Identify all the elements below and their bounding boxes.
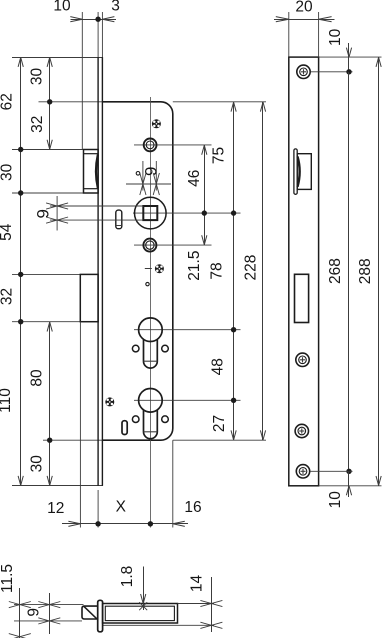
svg-text:268: 268	[327, 258, 344, 284]
svg-text:110: 110	[0, 388, 14, 413]
svg-text:54: 54	[0, 223, 15, 241]
svg-text:10: 10	[327, 491, 344, 509]
svg-text:32: 32	[29, 116, 46, 133]
svg-text:228: 228	[243, 255, 260, 281]
svg-text:80: 80	[29, 369, 46, 387]
svg-text:16: 16	[184, 499, 201, 516]
svg-text:X: X	[116, 499, 127, 516]
svg-text:30: 30	[29, 455, 46, 473]
svg-text:30: 30	[29, 68, 46, 86]
svg-text:10: 10	[327, 28, 344, 46]
svg-text:30: 30	[0, 163, 16, 181]
svg-text:20: 20	[295, 0, 313, 15]
svg-text:21.5: 21.5	[186, 251, 203, 281]
svg-text:14: 14	[189, 575, 206, 593]
svg-text:62: 62	[0, 93, 16, 110]
svg-text:12: 12	[47, 500, 64, 517]
svg-text:1.8: 1.8	[119, 566, 136, 588]
svg-text:3: 3	[111, 0, 120, 15]
svg-text:75: 75	[211, 147, 228, 164]
svg-text:48: 48	[210, 358, 227, 375]
svg-text:32: 32	[0, 288, 16, 305]
svg-text:11.5: 11.5	[0, 564, 16, 593]
svg-text:288: 288	[357, 258, 374, 284]
svg-text:9: 9	[142, 167, 161, 176]
svg-text:27: 27	[211, 415, 228, 432]
svg-text:9: 9	[26, 608, 43, 617]
svg-text:10: 10	[53, 0, 71, 15]
svg-text:9: 9	[33, 209, 52, 218]
svg-text:46: 46	[186, 170, 203, 187]
svg-text:78: 78	[209, 262, 226, 279]
